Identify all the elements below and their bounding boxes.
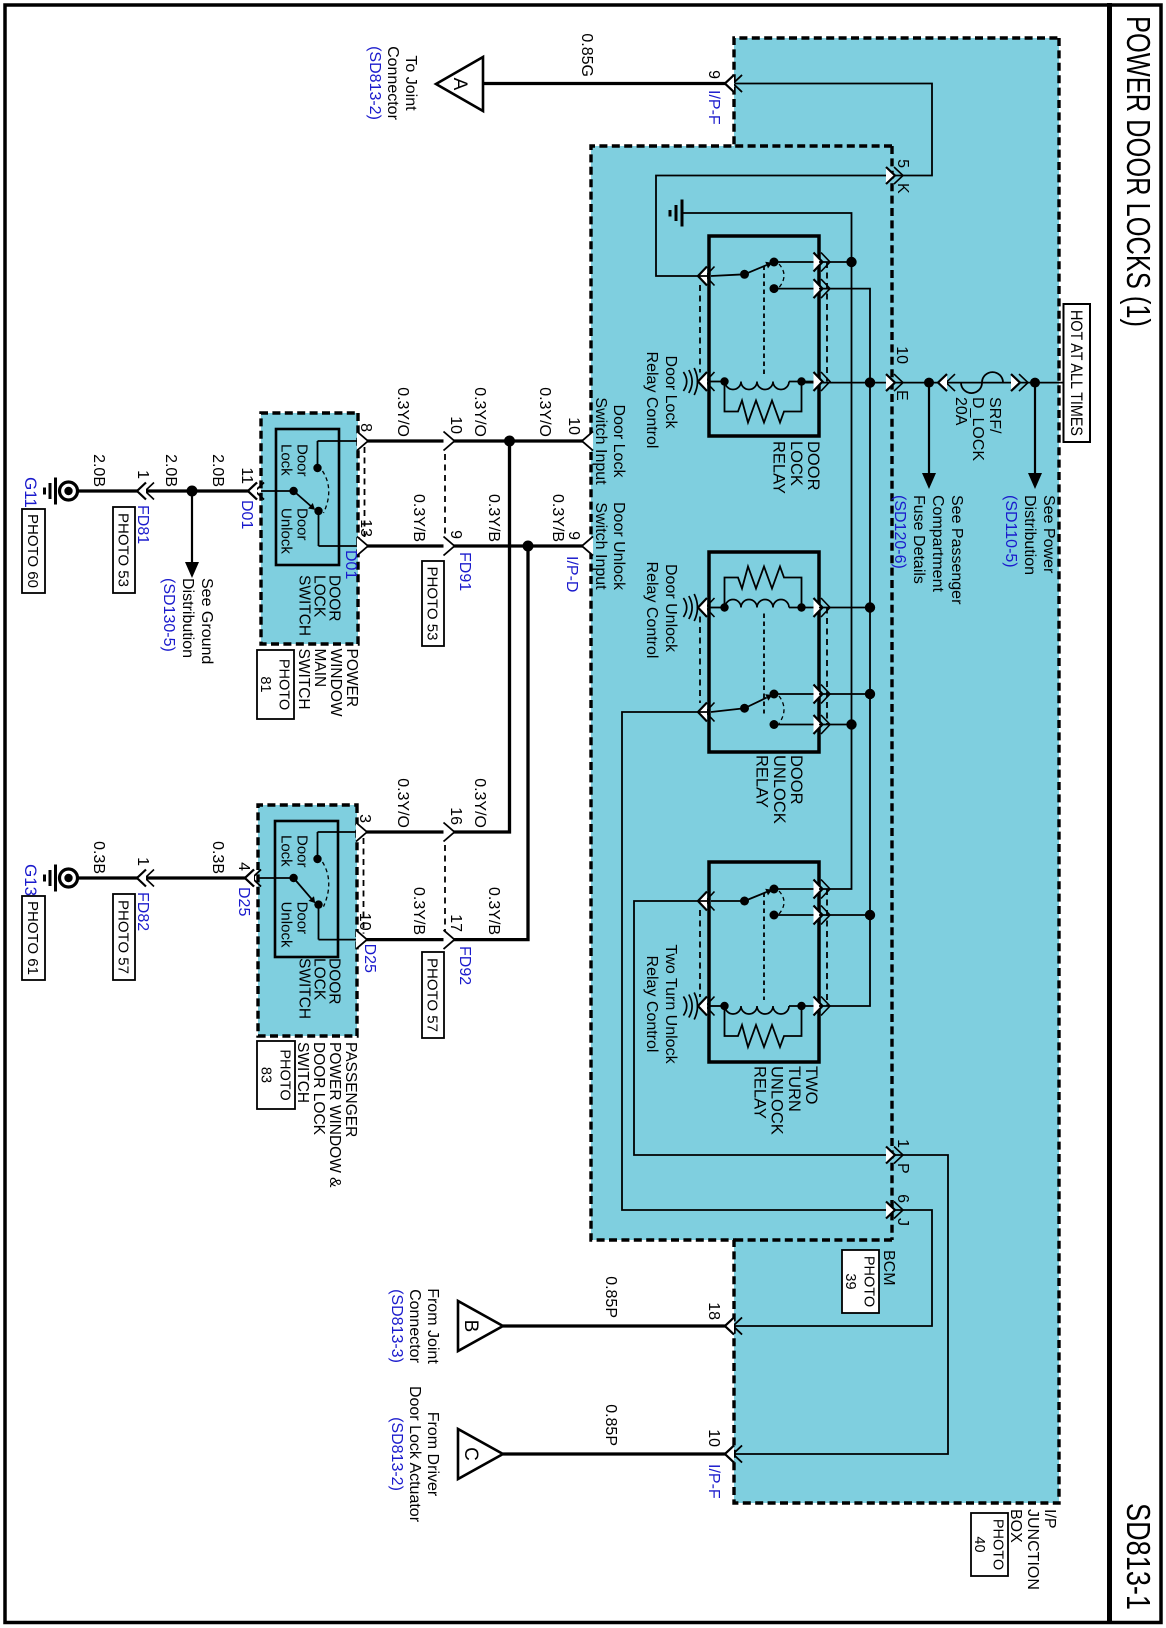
photo box FD91 xyxy=(422,561,444,646)
triangle connector B xyxy=(458,1301,503,1351)
svg-text:Door Unlock: Door Unlock xyxy=(610,502,627,591)
svg-text:PHOTO 57: PHOTO 57 xyxy=(424,958,441,1032)
relay pin dashed links xyxy=(826,608,828,725)
svg-text:SWITCH: SWITCH xyxy=(295,649,312,710)
connector FD91 pin 9 xyxy=(444,537,455,556)
fuse SRF/D_LOCK 20A xyxy=(961,372,1003,393)
svg-text:BOX: BOX xyxy=(1007,1509,1024,1543)
svg-text:1: 1 xyxy=(134,857,151,866)
svg-text:MAIN: MAIN xyxy=(311,649,328,688)
connector FD92 pin 16 xyxy=(444,823,455,842)
connector 10 I/P-F on box edge xyxy=(733,1446,742,1463)
svg-text:B: B xyxy=(460,1320,481,1333)
photo box FD92 xyxy=(422,952,444,1038)
relay switch common xyxy=(740,270,749,279)
svg-text:BCM: BCM xyxy=(880,1250,897,1286)
relay coil resistor xyxy=(725,1006,802,1047)
svg-text:LOCK: LOCK xyxy=(787,441,805,486)
wire 0.85P to connector B xyxy=(503,1324,734,1327)
connector row FD91 dashed xyxy=(444,433,446,554)
svg-text:20A: 20A xyxy=(952,397,969,426)
svg-text:PHOTO 60: PHOTO 60 xyxy=(24,514,41,588)
svg-text:TURN: TURN xyxy=(785,1066,803,1112)
relay switch common xyxy=(740,704,749,713)
bus upper branch to door unlock coil xyxy=(819,607,870,609)
connector 1 P on partition xyxy=(894,1147,903,1164)
arrow See Power Distribution xyxy=(1034,383,1036,475)
svg-text:POWER DOOR LOCKS (1): POWER DOOR LOCKS (1) xyxy=(1120,16,1157,327)
relay coil pin break marks xyxy=(694,993,697,1020)
I/P junction box photo box xyxy=(971,1513,1008,1576)
svg-text:17: 17 xyxy=(447,914,464,932)
switch contacts xyxy=(313,855,321,863)
svg-text:11: 11 xyxy=(238,467,255,484)
svg-text:Door Unlock: Door Unlock xyxy=(662,564,679,653)
relay mechanical link xyxy=(763,614,765,714)
connector chevrons above 10E xyxy=(946,374,955,391)
svg-text:9: 9 xyxy=(447,530,464,539)
connector FD81 xyxy=(145,483,154,500)
svg-text:UNLOCK: UNLOCK xyxy=(768,1066,786,1135)
svg-text:FD81: FD81 xyxy=(134,505,151,544)
junction dot ground branch xyxy=(187,486,198,497)
switch armature xyxy=(294,878,312,899)
wire 0.85P to connector C xyxy=(503,1452,734,1455)
relay box TWO xyxy=(709,862,819,1062)
I/P junction box region fill xyxy=(591,38,1059,1503)
svg-text:DOOR: DOOR xyxy=(787,755,805,805)
svg-text:D01: D01 xyxy=(342,550,359,579)
relay coil resistor xyxy=(725,382,802,423)
relay switch armature xyxy=(745,698,767,709)
svg-text:UNLOCK: UNLOCK xyxy=(770,755,788,824)
svg-text:PHOTO 57: PHOTO 57 xyxy=(115,900,132,974)
svg-text:Relay Control: Relay Control xyxy=(643,562,660,659)
svg-text:Door: Door xyxy=(294,508,311,541)
arrow See Ground Distribution xyxy=(191,491,193,564)
svg-text:Fuse Details: Fuse Details xyxy=(910,495,927,584)
relay pins top xyxy=(821,253,830,272)
relay pins bottom xyxy=(706,892,715,911)
svg-text:SWITCH: SWITCH xyxy=(296,958,313,1019)
svg-text:Door Lock: Door Lock xyxy=(662,356,679,430)
svg-text:See Ground: See Ground xyxy=(198,578,215,664)
svg-text:(SD813-3): (SD813-3) xyxy=(388,1289,405,1363)
svg-text:Lock: Lock xyxy=(278,835,295,867)
connector FD82 xyxy=(145,870,154,887)
svg-text:8: 8 xyxy=(357,423,374,432)
svg-text:1: 1 xyxy=(894,1139,911,1148)
svg-text:16: 16 xyxy=(447,807,464,825)
relay coil xyxy=(797,377,805,385)
switch contacts xyxy=(313,464,321,472)
relay mechanical link xyxy=(763,893,765,1001)
photo box G13 xyxy=(22,896,45,980)
svg-text:2.0B: 2.0B xyxy=(162,454,179,487)
svg-text:3: 3 xyxy=(356,814,373,823)
relay pin dashed links xyxy=(826,262,828,382)
svg-text:10: 10 xyxy=(356,913,373,931)
junction dot upper xyxy=(1030,378,1040,388)
svg-text:9: 9 xyxy=(565,531,582,540)
ground G11 xyxy=(60,482,78,500)
svg-text:39: 39 xyxy=(842,1273,858,1289)
wire bus lower (ground bus) xyxy=(682,213,852,889)
relay switch common xyxy=(740,897,749,906)
svg-text:10: 10 xyxy=(893,346,910,364)
svg-text:9: 9 xyxy=(705,70,722,79)
wire 2.0B main ground chain xyxy=(77,489,255,492)
connector FD92 pin 17 xyxy=(444,930,455,949)
relay switch armature xyxy=(745,265,767,274)
svg-text:13: 13 xyxy=(357,519,374,537)
svg-text:Door Lock Actuator: Door Lock Actuator xyxy=(406,1386,423,1523)
connector 9 I/P-D xyxy=(582,537,593,556)
svg-text:0.3Y/O: 0.3Y/O xyxy=(394,387,411,437)
svg-text:PHOTO: PHOTO xyxy=(990,1519,1006,1570)
junction box internal dashed left xyxy=(734,144,892,147)
bus upper branch to door unlock contact xyxy=(819,693,870,695)
junction dot 0.3Y/O xyxy=(504,436,515,447)
connector chevrons redraw 10 I/P-F xyxy=(733,1446,742,1463)
svg-text:Compartment: Compartment xyxy=(929,495,946,592)
svg-text:J: J xyxy=(894,1218,911,1226)
door lock switch inner box xyxy=(275,821,338,957)
relay switch armature xyxy=(745,892,767,901)
svg-text:SWITCH: SWITCH xyxy=(294,1042,311,1103)
connector chevrons redraw I/P-D 9 xyxy=(582,537,593,556)
svg-text:0.3Y/O: 0.3Y/O xyxy=(394,778,411,828)
svg-text:I/P-F: I/P-F xyxy=(705,1464,722,1499)
wire 1 P to two turn relay xyxy=(634,901,948,1454)
svg-text:SRF/: SRF/ xyxy=(986,397,1003,434)
wire 5 K to door lock relay xyxy=(656,84,932,277)
relay pin dashed links xyxy=(826,889,828,1006)
svg-text:I/P-D: I/P-D xyxy=(563,556,580,592)
svg-text:E: E xyxy=(893,390,910,401)
switch armature xyxy=(294,491,312,507)
svg-text:0.85P: 0.85P xyxy=(602,1404,619,1446)
svg-text:2.0B: 2.0B xyxy=(90,454,107,487)
wire 0.3Y/O main xyxy=(358,439,591,442)
triangle connector A xyxy=(436,57,483,111)
switch bottom pin xyxy=(255,483,264,500)
svg-text:Distribution: Distribution xyxy=(1021,495,1038,575)
relay coil xyxy=(797,603,805,611)
wire 0.3Y/O cross link xyxy=(357,441,510,832)
svg-text:0.3Y/B: 0.3Y/B xyxy=(549,494,566,542)
svg-text:Two Turn Unlock: Two Turn Unlock xyxy=(662,944,679,1064)
relay coil bottom pin xyxy=(709,1005,725,1007)
svg-text:DOOR: DOOR xyxy=(804,441,822,491)
door lock switch unit box (cyan) xyxy=(261,413,358,644)
svg-text:SWITCH: SWITCH xyxy=(296,575,313,636)
I/P junction box dashed border xyxy=(591,38,1059,1503)
relay coil bottom pin xyxy=(709,381,725,383)
switch arc xyxy=(323,862,329,907)
svg-text:18: 18 xyxy=(705,1302,722,1320)
svg-text:0.3Y/B: 0.3Y/B xyxy=(485,494,502,542)
arrow See Passenger Compartment xyxy=(928,383,930,475)
svg-text:DOOR LOCK: DOOR LOCK xyxy=(310,1042,327,1136)
door lock switch unit box (cyan) xyxy=(258,805,357,1036)
junction box internal partition dashed xyxy=(890,146,893,1240)
svg-text:Door Lock: Door Lock xyxy=(610,405,627,479)
ground symbol inside junction box xyxy=(681,200,684,227)
ground G13 xyxy=(60,869,78,887)
svg-text:(SD130-5): (SD130-5) xyxy=(160,578,177,652)
svg-text:SD813-1: SD813-1 xyxy=(1120,1503,1157,1610)
photo box FD82 xyxy=(113,894,135,980)
svg-text:Relay Control: Relay Control xyxy=(643,956,660,1053)
connector 10 E on partition xyxy=(894,374,903,391)
switch top pin dashed link xyxy=(363,838,365,934)
bus upper branch to two turn contact xyxy=(819,914,870,916)
switch bottom pin xyxy=(252,870,261,887)
svg-text:0.3Y/B: 0.3Y/B xyxy=(410,887,427,935)
svg-text:10: 10 xyxy=(705,1429,722,1447)
svg-text:PASSENGER: PASSENGER xyxy=(342,1042,359,1137)
bus upper junction dots xyxy=(865,377,875,387)
svg-text:Lock: Lock xyxy=(278,444,295,476)
relay coil xyxy=(797,1002,805,1010)
svg-text:0.3Y/B: 0.3Y/B xyxy=(410,494,427,542)
svg-text:From Joint: From Joint xyxy=(424,1288,441,1364)
connector chevrons below HOT xyxy=(1019,374,1028,391)
BCM photo box xyxy=(842,1250,879,1313)
connector chevrons redraw D25 pin 4 xyxy=(252,870,261,887)
svg-text:6: 6 xyxy=(894,1194,911,1203)
svg-text:I/P-F: I/P-F xyxy=(705,90,722,125)
svg-text:WINDOW: WINDOW xyxy=(327,649,344,717)
photo box G11 xyxy=(22,509,45,593)
svg-text:RELAY: RELAY xyxy=(770,441,788,494)
junction dot 0.3Y/B xyxy=(523,541,534,552)
bus lower branch to door unlock contact xyxy=(819,724,852,726)
wire 0.85G to connector A xyxy=(483,82,734,85)
svg-text:0.3Y/O: 0.3Y/O xyxy=(471,778,488,828)
svg-text:(SD813-2): (SD813-2) xyxy=(366,46,383,120)
svg-text:Connector: Connector xyxy=(384,46,401,120)
svg-text:G11: G11 xyxy=(21,477,40,508)
svg-text:10: 10 xyxy=(565,417,582,435)
bus lower branch to door lock contact xyxy=(819,261,852,263)
svg-text:Switch Input: Switch Input xyxy=(592,397,609,485)
title separator line xyxy=(1107,3,1112,1623)
wire 6 J to door unlock relay xyxy=(622,712,932,1326)
switch common xyxy=(289,487,297,495)
relay switch arc xyxy=(779,264,784,288)
connector 5 K on partition xyxy=(894,167,903,184)
svg-text:83: 83 xyxy=(257,1067,273,1083)
svg-text:RELAY: RELAY xyxy=(750,1066,768,1119)
svg-text:(SD813-2): (SD813-2) xyxy=(388,1417,405,1491)
svg-text:From Driver: From Driver xyxy=(424,1412,441,1497)
svg-text:See Passenger: See Passenger xyxy=(948,495,965,605)
junction box internal dashed right xyxy=(734,1238,892,1241)
wire 0.3Y/B cross link xyxy=(357,546,528,940)
svg-text:0.3Y/O: 0.3Y/O xyxy=(536,387,553,437)
svg-text:D25: D25 xyxy=(361,944,378,973)
svg-text:POWER WINDOW &: POWER WINDOW & xyxy=(326,1042,343,1188)
svg-text:Door: Door xyxy=(294,902,311,935)
bus lower junction dots xyxy=(846,257,856,267)
wire 0.3B passenger ground chain xyxy=(77,876,255,879)
switch contact wires xyxy=(318,831,358,833)
wire 0.3Y/B main xyxy=(358,544,591,547)
svg-text:PHOTO 53: PHOTO 53 xyxy=(424,567,441,641)
connector chevrons redraw 9 I/P-F xyxy=(733,75,742,92)
switch arc xyxy=(323,471,329,513)
svg-text:(SD120-6): (SD120-6) xyxy=(891,495,908,569)
svg-text:2.0B: 2.0B xyxy=(209,454,226,487)
relay switch arc xyxy=(779,891,784,914)
relay pins top xyxy=(821,880,830,899)
svg-text:RELAY: RELAY xyxy=(753,755,771,808)
svg-text:(SD110-5): (SD110-5) xyxy=(1002,495,1019,568)
svg-text:4: 4 xyxy=(235,862,252,871)
svg-text:0.3B: 0.3B xyxy=(90,841,107,874)
svg-text:FD92: FD92 xyxy=(456,946,473,985)
triangle connector C xyxy=(458,1429,503,1479)
connector FD91 pin 10 xyxy=(444,432,455,451)
svg-text:C: C xyxy=(460,1447,481,1461)
switch top pin dashed link xyxy=(364,447,366,540)
wire bus upper (door lock relay NC feed) xyxy=(819,289,870,1006)
svg-text:A: A xyxy=(449,78,470,91)
svg-text:To Joint: To Joint xyxy=(402,55,419,111)
connector chevrons redraw I/P-D 10 xyxy=(582,432,593,451)
svg-text:PHOTO 61: PHOTO 61 xyxy=(24,901,41,975)
connector 18 on box edge xyxy=(733,1318,742,1335)
svg-text:1: 1 xyxy=(134,470,151,479)
svg-text:PHOTO: PHOTO xyxy=(276,1049,292,1100)
door lock switch inner box xyxy=(276,429,339,565)
relay pins bottom xyxy=(706,267,715,286)
connector 9 I/P-F on box edge xyxy=(733,75,742,92)
svg-text:HOT AT ALL TIMES: HOT AT ALL TIMES xyxy=(1067,310,1086,436)
HOT AT ALL TIMES box xyxy=(1064,304,1091,442)
photo box 81 xyxy=(257,650,294,719)
svg-text:PHOTO: PHOTO xyxy=(861,1256,877,1307)
connector chevrons redraw D01 pin 11 xyxy=(255,483,264,500)
relay coil resistor xyxy=(725,567,802,608)
svg-text:0.85G: 0.85G xyxy=(578,33,595,77)
svg-text:PHOTO: PHOTO xyxy=(276,659,292,710)
svg-text:Unlock: Unlock xyxy=(278,508,295,554)
svg-text:0.3Y/B: 0.3Y/B xyxy=(485,887,502,935)
svg-text:FD82: FD82 xyxy=(134,892,151,931)
relay pins top xyxy=(821,685,830,704)
svg-text:JUNCTION: JUNCTION xyxy=(1024,1509,1041,1590)
svg-text:K: K xyxy=(894,183,911,194)
connector 10 I/P-D xyxy=(582,432,593,451)
svg-text:Connector: Connector xyxy=(406,1289,423,1363)
relay switch contacts xyxy=(774,888,819,890)
relay switch contacts xyxy=(774,693,819,695)
svg-text:PHOTO 53: PHOTO 53 xyxy=(115,513,132,587)
svg-text:P: P xyxy=(894,1163,911,1174)
svg-text:D_LOCK: D_LOCK xyxy=(969,397,986,461)
svg-text:0.3Y/O: 0.3Y/O xyxy=(471,387,488,437)
svg-text:See Power: See Power xyxy=(1040,495,1057,574)
svg-text:TWO: TWO xyxy=(802,1066,820,1105)
svg-text:FD91: FD91 xyxy=(456,552,473,591)
photo box FD81 xyxy=(113,507,135,593)
connector 6 J on partition xyxy=(894,1202,903,1219)
svg-text:5: 5 xyxy=(894,159,911,168)
relay box DOOR xyxy=(709,552,819,752)
relay coil bottom pin xyxy=(709,607,725,609)
svg-text:0.3B: 0.3B xyxy=(209,841,226,874)
switch common xyxy=(289,874,297,882)
svg-text:D25: D25 xyxy=(235,887,252,916)
svg-text:Distribution: Distribution xyxy=(179,578,196,658)
svg-text:81: 81 xyxy=(257,676,273,692)
svg-text:POWER: POWER xyxy=(343,649,360,708)
svg-text:Door: Door xyxy=(294,835,311,868)
relay switch contacts xyxy=(774,261,819,263)
switch top pins xyxy=(357,432,368,451)
svg-text:I/P: I/P xyxy=(1041,1509,1058,1529)
relay pins bottom xyxy=(706,703,715,722)
relay coil pin break marks xyxy=(694,368,697,395)
svg-text:Switch Input: Switch Input xyxy=(592,502,609,590)
svg-text:Relay Control: Relay Control xyxy=(643,352,660,449)
switch contact wires xyxy=(318,440,359,442)
svg-text:G13: G13 xyxy=(21,864,40,896)
svg-text:Door: Door xyxy=(294,444,311,477)
connector row FD92 dashed xyxy=(444,824,446,945)
svg-text:0.85P: 0.85P xyxy=(602,1276,619,1318)
connector chevrons redraw 18 xyxy=(733,1318,742,1335)
svg-text:Unlock: Unlock xyxy=(278,902,295,948)
svg-text:10: 10 xyxy=(447,416,464,434)
junction dot lower xyxy=(924,378,934,388)
relay mechanical link xyxy=(763,266,765,376)
svg-text:D01: D01 xyxy=(238,500,255,529)
switch top pins xyxy=(356,823,367,842)
photo box 83 xyxy=(257,1041,295,1109)
relay switch arc xyxy=(779,696,784,724)
svg-text:40: 40 xyxy=(971,1536,987,1552)
relay coil pin break marks xyxy=(694,594,697,621)
wire fuse feed xyxy=(1035,382,1063,384)
relay box DOOR xyxy=(709,236,819,436)
